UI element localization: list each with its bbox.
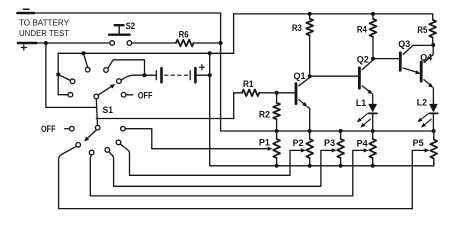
svg-text:UNDER TEST: UNDER TEST bbox=[19, 28, 70, 38]
svg-text:R3: R3 bbox=[292, 23, 302, 34]
svg-text:OFF: OFF bbox=[41, 124, 56, 135]
svg-text:P5: P5 bbox=[413, 138, 425, 149]
svg-text:Q1: Q1 bbox=[294, 71, 307, 82]
svg-text:P3: P3 bbox=[324, 138, 335, 149]
svg-text:R5: R5 bbox=[417, 25, 428, 36]
svg-text:P2: P2 bbox=[293, 138, 304, 149]
svg-text:P1: P1 bbox=[259, 138, 271, 149]
svg-text:Q2: Q2 bbox=[357, 55, 369, 66]
svg-text:Q3: Q3 bbox=[398, 39, 410, 50]
svg-text:P4: P4 bbox=[357, 138, 369, 149]
svg-text:S2: S2 bbox=[126, 21, 136, 32]
svg-text:R1: R1 bbox=[243, 79, 254, 90]
svg-text:OFF: OFF bbox=[138, 90, 153, 101]
svg-text:S1: S1 bbox=[103, 105, 114, 116]
svg-text:TO BATTERY: TO BATTERY bbox=[19, 17, 69, 27]
svg-text:L1: L1 bbox=[356, 98, 367, 109]
svg-text:R2: R2 bbox=[259, 109, 270, 120]
svg-text:R6: R6 bbox=[179, 29, 189, 40]
svg-text:Q4: Q4 bbox=[420, 52, 433, 63]
svg-text:L2: L2 bbox=[417, 98, 427, 109]
svg-text:R4: R4 bbox=[357, 24, 368, 35]
